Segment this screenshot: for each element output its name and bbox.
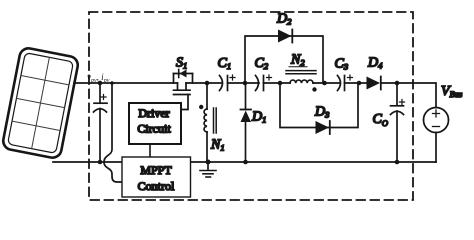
transistor S1 (MOSFET with body diode) [174, 70, 193, 110]
wire top rail N2 to C3 [313, 82, 340, 84]
svg-text:D3: D3 [314, 105, 329, 120]
wire top rail S1 to C1 [186, 82, 222, 84]
diode D3 [316, 121, 330, 134]
node C2/N2/D3 [278, 81, 283, 86]
voltage source Vbus [424, 108, 449, 133]
node Co bottom [395, 160, 400, 165]
node C1/C2/D1/D2 [243, 81, 248, 86]
node input cap bottom [98, 160, 103, 165]
diode D2 loop [245, 36, 323, 83]
node N2/C3/D2 [322, 81, 327, 86]
polarity dot N2 [312, 87, 316, 91]
MPPT control box [122, 157, 191, 197]
svg-text:MPPT: MPPT [140, 163, 172, 177]
node D4/Co [395, 81, 400, 86]
node D1 bottom [243, 160, 248, 165]
core of N2 [286, 70, 316, 72]
inductor N1 branch [204, 83, 207, 162]
ground [200, 160, 216, 178]
svg-text:Driver: Driver [138, 106, 169, 120]
node after S1 [205, 81, 210, 86]
wire top rail segment from panel to S1 [74, 82, 178, 84]
diode D4 [367, 77, 381, 90]
svg-text:D4: D4 [367, 56, 383, 71]
inductor N2 winding [290, 80, 313, 83]
node vpv sense tap [98, 81, 103, 86]
capacitor Co [391, 83, 405, 162]
svg-text:Circuit: Circuit [137, 122, 171, 136]
svg-text:D1: D1 [251, 110, 266, 125]
capacitor C3 [338, 75, 353, 91]
polarity dot N1 [199, 105, 203, 109]
driver circuit box [129, 103, 181, 158]
node C3/D4/D3 [357, 81, 362, 86]
wire top rail C1 to C2 [228, 82, 260, 84]
wire top rail D4 to Vbus corner [382, 83, 437, 108]
svg-text:S1: S1 [176, 56, 187, 71]
capacitor C2 [256, 75, 272, 91]
diode D1 branch [241, 83, 252, 162]
svg-text:VBus: VBus [441, 84, 463, 99]
wire Vbus bottom [435, 133, 437, 163]
wire bottom rail [53, 161, 436, 163]
label vpv,ipv [87, 72, 110, 84]
capacitor C1 [220, 75, 236, 91]
svg-text:N2: N2 [290, 53, 305, 68]
svg-text:C3: C3 [335, 57, 349, 72]
wire top rail C3 to D4 [345, 82, 367, 84]
svg-text:C2: C2 [255, 56, 269, 71]
core of N1 [213, 108, 215, 133]
svg-text:C1: C1 [218, 56, 232, 71]
svg-text:CO: CO [373, 112, 388, 128]
PV panel [2, 47, 80, 159]
diode D3 loop [280, 83, 358, 128]
wire MPPT sense line with hop [104, 84, 121, 182]
svg-text:D2: D2 [276, 12, 292, 27]
capacitor Cpv (input) [94, 83, 108, 162]
wire top rail C2 to N2 [264, 82, 291, 84]
converter boundary dashed box [89, 12, 413, 200]
diode D2 [278, 30, 292, 43]
svg-text:Control: Control [138, 179, 175, 193]
svg-text:N1: N1 [210, 138, 225, 153]
